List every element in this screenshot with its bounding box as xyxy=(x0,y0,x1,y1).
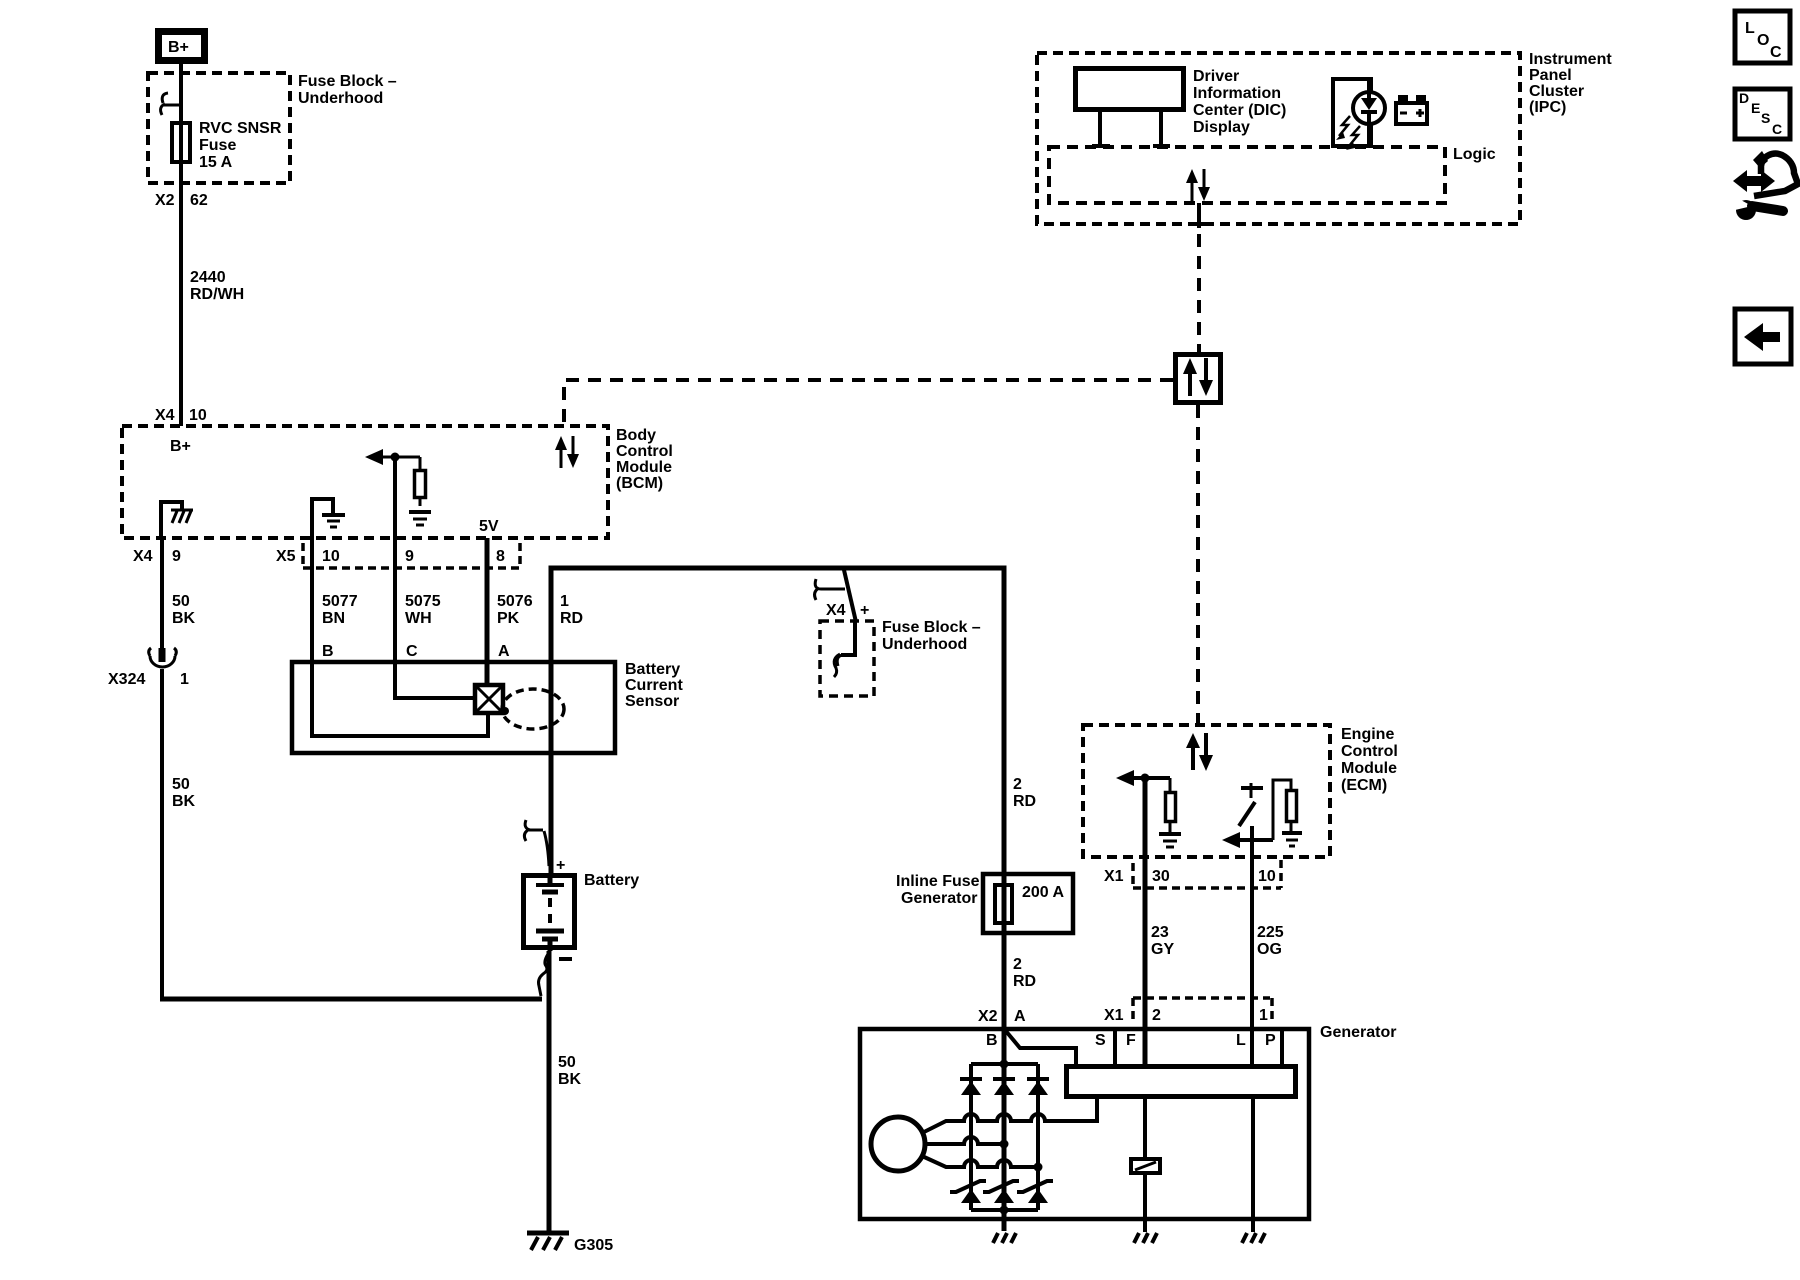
serial data wire to ECM (dashed) xyxy=(1196,405,1200,725)
label Engine Control Module (ECM) xyxy=(1341,726,1398,794)
svg-text:+: + xyxy=(860,602,869,619)
wire 2440 RD/WH from B+ to BCM xyxy=(179,64,183,426)
svg-text:S: S xyxy=(1095,1032,1106,1049)
svg-text:B: B xyxy=(322,643,334,660)
svg-text:PK: PK xyxy=(497,610,520,627)
wire label 50 BK xyxy=(172,593,196,627)
engine control module ECM (dashed box) xyxy=(1083,725,1330,857)
svg-text:Sensor: Sensor xyxy=(625,693,679,710)
ground below generator (L) xyxy=(1242,1233,1265,1243)
lower diode 1 xyxy=(961,1189,981,1203)
svg-text:RD: RD xyxy=(1013,973,1036,990)
fuse block underhood (dashed box, middle) xyxy=(820,621,874,696)
pin B xyxy=(322,643,334,660)
svg-text:Engine: Engine xyxy=(1341,726,1394,743)
svg-text:G305: G305 xyxy=(574,1237,613,1254)
svg-text:10: 10 xyxy=(1258,868,1276,885)
svg-text:S: S xyxy=(1761,110,1770,126)
label Instrument Panel Cluster (IPC) xyxy=(1529,51,1612,116)
svg-text:B+: B+ xyxy=(168,39,189,56)
svg-text:F: F xyxy=(1126,1032,1136,1049)
connector X2 pin 62 xyxy=(155,192,208,209)
svg-text:Generator: Generator xyxy=(901,890,977,907)
terminal cell divider right of P xyxy=(1280,1029,1284,1064)
svg-text:225: 225 xyxy=(1257,924,1284,941)
svg-text:5076: 5076 xyxy=(497,593,533,610)
inline fuse generator box xyxy=(983,874,1073,933)
svg-text:B+: B+ xyxy=(170,438,191,455)
serial data wire from logic xyxy=(1191,203,1208,352)
wire label 50 BK xyxy=(558,1054,582,1088)
wire label 5075 WH xyxy=(405,593,441,627)
svg-text:2: 2 xyxy=(1013,956,1022,973)
svg-text:BK: BK xyxy=(558,1071,582,1088)
svg-text:Module: Module xyxy=(1341,760,1397,777)
svg-text:9: 9 xyxy=(405,548,414,565)
label RVC SNSR Fuse 15 A xyxy=(199,120,282,171)
pin B xyxy=(986,1032,998,1049)
svg-text:X4: X4 xyxy=(133,548,153,565)
sensor wire A link xyxy=(485,660,490,685)
svg-text:Current: Current xyxy=(625,677,683,694)
label Body Control Module (BCM) xyxy=(616,427,673,492)
generator box xyxy=(860,1029,1309,1219)
svg-text:Fuse: Fuse xyxy=(199,137,236,154)
svg-text:L: L xyxy=(1745,20,1755,37)
svg-text:E: E xyxy=(1751,100,1760,116)
sensor wire B link xyxy=(312,660,488,736)
svg-text:Underhood: Underhood xyxy=(882,636,967,653)
ECM serial data arrows xyxy=(1186,733,1213,771)
ground G305 xyxy=(527,1233,613,1254)
logic serial arrows xyxy=(1186,169,1210,201)
battery current sensor box xyxy=(292,662,615,753)
stator winding (circle) xyxy=(871,1117,925,1171)
L wire inside generator xyxy=(1251,1098,1255,1232)
svg-text:Fuse Block –: Fuse Block – xyxy=(298,73,397,90)
zener mark 2 xyxy=(983,1181,1019,1192)
svg-text:C: C xyxy=(1770,44,1782,61)
sensor wire C link xyxy=(395,660,473,698)
svg-text:(IPC): (IPC) xyxy=(1529,99,1566,116)
fuse 200 A xyxy=(995,884,1065,923)
svg-text:WH: WH xyxy=(405,610,432,627)
connector X4 pin 10 xyxy=(155,407,207,424)
svg-text:62: 62 xyxy=(190,192,208,209)
svg-text:D: D xyxy=(1739,90,1749,106)
wire inside fuse block to terminal xyxy=(834,622,855,677)
svg-text:1: 1 xyxy=(1259,1007,1268,1024)
svg-text:X4: X4 xyxy=(826,602,846,619)
battery negative connector squiggle xyxy=(539,954,549,996)
battery positive terminal B+ xyxy=(159,32,205,61)
icon back arrow box xyxy=(1735,309,1791,364)
pin P xyxy=(1265,1032,1276,1049)
rectifier left leg xyxy=(969,1064,973,1210)
rectifier bottom bus xyxy=(971,1206,1038,1215)
connector X4 pin 9 xyxy=(133,548,181,565)
data link junction box xyxy=(1176,355,1221,403)
connector clip at fuse top xyxy=(161,93,181,115)
field coil box with slash (F circuit) xyxy=(1131,1098,1160,1219)
svg-text:RD/WH: RD/WH xyxy=(190,286,244,303)
svg-text:X1: X1 xyxy=(1104,868,1124,885)
svg-text:9: 9 xyxy=(172,548,181,565)
zener mark 1 xyxy=(950,1181,986,1192)
label Logic xyxy=(1453,146,1496,163)
svg-text:Control: Control xyxy=(616,443,673,460)
wire 1 RD / 2 RD main run xyxy=(551,568,1004,1231)
label Inline Fuse Generator xyxy=(896,873,980,907)
ground below generator (B) xyxy=(993,1233,1016,1243)
connector X1 pins 2 1 (generator side) xyxy=(1104,998,1272,1024)
icon diagnostic arrows and wrench xyxy=(1733,151,1798,220)
svg-text:Control: Control xyxy=(1341,743,1398,760)
svg-text:2: 2 xyxy=(1152,1007,1161,1024)
svg-text:15 A: 15 A xyxy=(199,154,233,171)
wire 5077 BN xyxy=(310,538,314,660)
rectifier top bus xyxy=(971,1060,1038,1069)
terminal cell divider S|F xyxy=(1113,1029,1117,1064)
wire 50 BK upper xyxy=(160,538,164,650)
node - (battery) xyxy=(559,957,572,961)
connector X2 pin A xyxy=(978,1008,1026,1025)
wire 225 OG (ECM pin 10 to generator L) xyxy=(1250,826,1254,1066)
stator phase 1 lead with humps xyxy=(922,1098,1097,1133)
svg-text:Center (DIC): Center (DIC) xyxy=(1193,102,1286,119)
BCM sense resistor with signal arrow pin X5-9 xyxy=(365,449,431,538)
svg-text:5075: 5075 xyxy=(405,593,441,610)
wire label 2440 RD/WH xyxy=(190,269,244,303)
node B+ inside BCM xyxy=(170,438,191,455)
stator phase 2 lead with hump xyxy=(925,1137,1009,1149)
pin L xyxy=(1236,1032,1246,1049)
svg-text:A: A xyxy=(498,643,510,660)
svg-text:BK: BK xyxy=(172,793,196,810)
svg-text:10: 10 xyxy=(189,407,207,424)
ground below generator (F) xyxy=(1134,1219,1157,1243)
battery icon in IPC xyxy=(1396,95,1427,124)
svg-text:50: 50 xyxy=(172,776,190,793)
serial data wire to BCM (dashed) xyxy=(564,380,1173,426)
wire label 5077 BN xyxy=(322,593,358,627)
wire label 5076 PK xyxy=(497,593,533,627)
instrument panel cluster IPC (dashed box) xyxy=(1037,53,1520,224)
lower diode 3 xyxy=(1028,1189,1048,1203)
svg-text:X1: X1 xyxy=(1104,1007,1124,1024)
svg-text:5077: 5077 xyxy=(322,593,358,610)
zener mark 3 xyxy=(1017,1181,1053,1192)
svg-text:B: B xyxy=(986,1032,998,1049)
body control module BCM (dashed box) xyxy=(122,426,608,538)
svg-text:Battery: Battery xyxy=(625,661,680,678)
pin F xyxy=(1126,1032,1136,1049)
svg-text:C: C xyxy=(406,643,418,660)
svg-text:200 A: 200 A xyxy=(1022,884,1065,901)
connector X5 pins 10 9 8 xyxy=(276,543,520,568)
wire 50 BK to ground xyxy=(547,951,552,1233)
icon LOC box xyxy=(1735,11,1790,63)
battery positive connector squiggle xyxy=(524,820,549,866)
wire label 1 RD xyxy=(560,593,583,627)
svg-text:BK: BK xyxy=(172,610,196,627)
wire 50 BK lower left xyxy=(160,669,164,999)
svg-text:10: 10 xyxy=(322,548,340,565)
BCM internal ground (earth) pin X5-10 xyxy=(312,499,345,538)
wire 5075 WH xyxy=(393,538,397,660)
fuse block underhood tap connector X4 + xyxy=(815,570,870,622)
pin A xyxy=(498,643,510,660)
connector X324 pin 1 xyxy=(108,648,189,688)
connector X1 pins 30 10 (ECM side) xyxy=(1104,860,1281,888)
svg-text:Driver: Driver xyxy=(1193,68,1239,85)
wire label 2 RD (lower) xyxy=(1013,956,1036,990)
svg-text:RD: RD xyxy=(1013,793,1036,810)
svg-text:Underhood: Underhood xyxy=(298,90,383,107)
svg-text:RD: RD xyxy=(560,610,583,627)
svg-text:50: 50 xyxy=(172,593,190,610)
svg-text:X4: X4 xyxy=(155,407,175,424)
svg-text:8: 8 xyxy=(496,548,505,565)
svg-text:X324: X324 xyxy=(108,671,145,688)
ECM driver switch and resistor (pin 10) xyxy=(1222,780,1302,848)
BCM internal ground (chassis) pin X4-9 xyxy=(161,502,193,538)
wire 23 GY (ECM pin 30 to generator F) xyxy=(1143,778,1148,1066)
svg-text:Fuse Block –: Fuse Block – xyxy=(882,619,981,636)
node 5V xyxy=(479,518,499,535)
svg-text:RVC SNSR: RVC SNSR xyxy=(199,120,282,137)
generator B terminal switch link xyxy=(1005,1030,1076,1064)
svg-text:Information: Information xyxy=(1193,85,1281,102)
upper diode 3 xyxy=(1027,1079,1049,1095)
sensor element (box with X) xyxy=(475,685,503,713)
DIC display symbol xyxy=(1076,69,1184,147)
svg-text:2: 2 xyxy=(1013,776,1022,793)
svg-text:Logic: Logic xyxy=(1453,146,1496,163)
rectifier right leg xyxy=(1036,1064,1040,1210)
wire to battery negative (horizontal) xyxy=(160,997,542,1002)
fuse block underhood (dashed box, top left) xyxy=(148,73,290,183)
wire label 23 GY xyxy=(1151,924,1174,958)
svg-text:X5: X5 xyxy=(276,548,296,565)
label Battery xyxy=(584,872,639,889)
wire label 50 BK xyxy=(172,776,196,810)
svg-text:Module: Module xyxy=(616,459,672,476)
svg-text:Battery: Battery xyxy=(584,872,639,889)
svg-text:Cluster: Cluster xyxy=(1529,83,1584,100)
BCM serial data arrows xyxy=(555,436,579,468)
label Driver Information Center (DIC) Display xyxy=(1193,68,1286,136)
battery xyxy=(524,873,575,951)
svg-text:Display: Display xyxy=(1193,119,1250,136)
svg-text:30: 30 xyxy=(1152,868,1170,885)
stator phase 3 lead with humps xyxy=(922,1156,1043,1172)
wire label 2 RD (upper) xyxy=(1013,776,1036,810)
svg-text:Inline Fuse: Inline Fuse xyxy=(896,873,980,890)
svg-text:X2: X2 xyxy=(978,1008,998,1025)
svg-text:(BCM): (BCM) xyxy=(616,475,663,492)
svg-text:Generator: Generator xyxy=(1320,1024,1396,1041)
svg-text:GY: GY xyxy=(1151,941,1174,958)
wire 5076 PK xyxy=(485,538,490,660)
svg-text:A: A xyxy=(1014,1008,1026,1025)
logic box (dashed) xyxy=(1049,147,1445,203)
pin S xyxy=(1095,1032,1106,1049)
label Battery Current Sensor xyxy=(625,661,683,710)
label Generator xyxy=(1320,1024,1396,1041)
svg-text:50: 50 xyxy=(558,1054,576,1071)
wire label 225 OG xyxy=(1257,924,1284,958)
charge indicator lamp (LED in frame) xyxy=(1333,77,1385,150)
node + (battery) xyxy=(556,857,565,874)
sensor clamp (dashed ellipse) xyxy=(501,689,564,729)
svg-text:P: P xyxy=(1265,1032,1276,1049)
svg-text:2440: 2440 xyxy=(190,269,226,286)
pin C xyxy=(406,643,418,660)
upper diode 1 xyxy=(960,1079,982,1095)
upper diode 2 xyxy=(993,1079,1015,1095)
svg-text:1: 1 xyxy=(560,593,569,610)
svg-text:BN: BN xyxy=(322,610,345,627)
svg-text:Panel: Panel xyxy=(1529,67,1572,84)
label Fuse Block - Underhood xyxy=(298,73,397,107)
lower diode 2 xyxy=(994,1189,1014,1203)
svg-text:X2: X2 xyxy=(155,192,175,209)
svg-text:+: + xyxy=(556,857,565,874)
svg-text:Instrument: Instrument xyxy=(1529,51,1612,68)
svg-text:23: 23 xyxy=(1151,924,1169,941)
voltage regulator box xyxy=(1067,1067,1296,1097)
svg-text:C: C xyxy=(1772,121,1782,137)
svg-text:L: L xyxy=(1236,1032,1246,1049)
icon DESC box xyxy=(1735,89,1790,139)
svg-text:5V: 5V xyxy=(479,518,499,535)
svg-text:O: O xyxy=(1757,32,1769,49)
svg-text:(ECM): (ECM) xyxy=(1341,777,1387,794)
fuse RVC SNSR 15 A xyxy=(172,123,190,162)
svg-text:OG: OG xyxy=(1257,941,1282,958)
label Fuse Block - Underhood xyxy=(882,619,981,653)
svg-text:Body: Body xyxy=(616,427,656,444)
svg-text:1: 1 xyxy=(180,671,189,688)
ECM sense resistor with arrow (pin 30) xyxy=(1116,770,1181,847)
